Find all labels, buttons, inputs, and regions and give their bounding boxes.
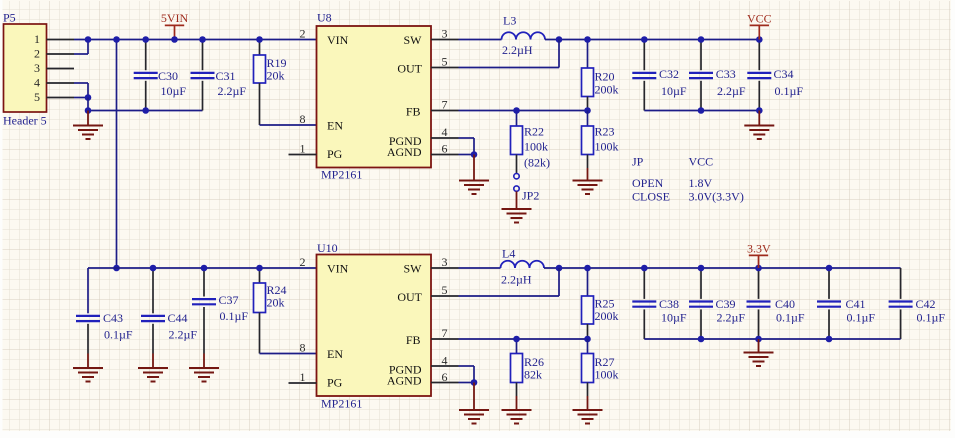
ground below R27 xyxy=(587,396,589,410)
svg-text:C39: C39 xyxy=(716,297,736,311)
wire pin5 down to bottom rail xyxy=(87,98,89,111)
resistor R20 200k xyxy=(587,40,589,69)
svg-text:C30: C30 xyxy=(158,69,178,83)
node pin2-rail junction xyxy=(85,36,92,43)
svg-text:R22: R22 xyxy=(524,125,544,139)
svg-text:PG: PG xyxy=(327,147,343,161)
svg-text:2.2µF: 2.2µF xyxy=(169,328,198,342)
node R19 top xyxy=(256,36,263,43)
svg-text:2: 2 xyxy=(34,47,40,61)
U8 pin 4 PGND wire xyxy=(431,137,459,139)
node R20/FB junction xyxy=(584,107,591,114)
U10 pin 3 SW wire to L4 xyxy=(431,267,459,269)
wire long vertical to lower section xyxy=(116,40,118,269)
node C39 bottom xyxy=(698,336,705,343)
svg-text:8: 8 xyxy=(300,112,306,126)
svg-text:U10: U10 xyxy=(317,241,338,255)
ground below U10 pins xyxy=(473,383,475,411)
node C39 top xyxy=(698,265,705,272)
resistor R25 200k xyxy=(587,268,589,296)
node U10 PGND/AGND junction xyxy=(471,379,478,386)
svg-text:1: 1 xyxy=(34,32,40,46)
U8 pin 6 AGND wire xyxy=(431,154,459,156)
svg-text:0.1µF: 0.1µF xyxy=(220,309,249,323)
wire pin5 to ground net xyxy=(74,97,88,99)
wire lower VIN rail xyxy=(88,267,317,269)
wire header bottom ground rail xyxy=(88,110,203,112)
svg-text:5VIN: 5VIN xyxy=(161,11,189,25)
svg-text:L4: L4 xyxy=(502,247,515,261)
node C41 bottom xyxy=(826,336,833,343)
svg-text:P5: P5 xyxy=(3,11,16,25)
capacitor C41 0.1uF xyxy=(828,268,830,299)
svg-text:C40: C40 xyxy=(775,297,795,311)
U10 pin 1 PG stub xyxy=(289,382,317,384)
svg-text:1: 1 xyxy=(300,370,306,384)
svg-text:C43: C43 xyxy=(103,311,123,325)
op-amp U8 MP2161 regulator xyxy=(317,26,432,168)
svg-text:3: 3 xyxy=(442,27,448,41)
svg-text:VCC: VCC xyxy=(689,155,714,169)
ground below C40 xyxy=(758,339,760,353)
svg-text:C34: C34 xyxy=(774,67,794,81)
svg-text:3.3V: 3.3V xyxy=(747,242,771,256)
svg-text:EN: EN xyxy=(327,119,343,133)
svg-text:OUT: OUT xyxy=(397,290,422,304)
node pin4/pin5 junction xyxy=(85,94,92,101)
svg-text:3: 3 xyxy=(442,255,448,269)
svg-text:VIN: VIN xyxy=(327,262,349,276)
node PGND/AGND junction xyxy=(471,151,478,158)
svg-text:100k: 100k xyxy=(524,140,548,154)
svg-text:4: 4 xyxy=(34,76,40,90)
node L4 output xyxy=(556,265,563,272)
wire caps bottom rail (3.3V filter) xyxy=(644,338,900,340)
ground below R23 xyxy=(587,168,589,181)
node C37 top xyxy=(201,265,208,272)
P5 pin 4 xyxy=(47,82,75,84)
resistor R23 100k xyxy=(587,111,589,127)
svg-text:100k: 100k xyxy=(595,368,619,382)
svg-text:1.8V: 1.8V xyxy=(689,176,713,190)
node C33 top xyxy=(698,36,705,43)
svg-text:100k: 100k xyxy=(595,140,619,154)
node C30 bottom xyxy=(142,107,149,114)
svg-text:C41: C41 xyxy=(846,297,866,311)
svg-text:5: 5 xyxy=(442,283,448,297)
node vertical-top junction xyxy=(113,36,120,43)
svg-text:FB: FB xyxy=(406,333,421,347)
svg-text:7: 7 xyxy=(442,326,448,340)
wire VCC rail xyxy=(545,39,759,41)
svg-text:82k: 82k xyxy=(524,368,542,382)
inductor L3 2.2uH xyxy=(502,32,546,39)
svg-text:MP2161: MP2161 xyxy=(321,397,362,411)
svg-text:EN: EN xyxy=(327,347,343,361)
svg-text:2.2µF: 2.2µF xyxy=(717,311,746,325)
svg-text:C32: C32 xyxy=(659,67,679,81)
svg-text:C31: C31 xyxy=(216,69,236,83)
svg-text:2: 2 xyxy=(300,255,306,269)
U8 pin 1 PG stub xyxy=(289,154,317,156)
wire 3.3V rail xyxy=(544,267,901,269)
svg-text:0.1µF: 0.1µF xyxy=(776,311,805,325)
capacitor C39 2.2uF xyxy=(700,268,702,299)
ground below R26 xyxy=(516,396,518,410)
node ground rail junction xyxy=(85,107,92,114)
node R26/FB junction xyxy=(513,336,520,343)
svg-text:OUT: OUT xyxy=(397,62,422,76)
resistor R22 100k (82k) xyxy=(516,111,518,127)
resistor R24 20k xyxy=(259,268,261,283)
ground below header xyxy=(87,111,89,126)
svg-text:0.1µF: 0.1µF xyxy=(847,311,876,325)
capacitor C32 10uF xyxy=(643,40,645,71)
node R25 top xyxy=(584,265,591,272)
svg-text:(82k): (82k) xyxy=(524,156,550,170)
svg-text:VCC: VCC xyxy=(747,12,772,26)
svg-text:4: 4 xyxy=(442,125,448,139)
wire pin2 up to rail xyxy=(74,53,88,55)
svg-text:2.2µH: 2.2µH xyxy=(501,273,532,287)
capacitor C34 0.1uF xyxy=(758,40,760,71)
inductor L4 2.2uH xyxy=(501,261,545,268)
svg-text:1: 1 xyxy=(300,141,306,155)
svg-text:JP: JP xyxy=(632,155,644,169)
jumper JP2 xyxy=(514,174,519,179)
svg-text:C44: C44 xyxy=(168,311,188,325)
node 5VIN junction xyxy=(171,36,178,43)
U10 pin 6 AGND wire xyxy=(431,382,459,384)
svg-text:C42: C42 xyxy=(916,297,936,311)
node C40 bottom xyxy=(755,336,762,343)
capacitor C40 0.1uF xyxy=(758,268,760,299)
resistor R19 20k xyxy=(259,40,261,56)
ground below C37 xyxy=(203,354,205,369)
capacitor C31 2.2uF xyxy=(202,40,204,71)
svg-text:10µF: 10µF xyxy=(661,311,687,325)
wire caps bottom rail xyxy=(644,110,759,112)
node vertical joins lower rail xyxy=(113,265,120,272)
wire pin4 down xyxy=(74,82,88,84)
P5 pin 5 xyxy=(47,97,75,99)
node R20 top xyxy=(584,36,591,43)
svg-text:0.1µF: 0.1µF xyxy=(104,328,133,342)
capacitor C38 10uF xyxy=(643,268,645,299)
svg-text:2.2µH: 2.2µH xyxy=(502,43,533,57)
svg-text:0.1µF: 0.1µF xyxy=(775,84,804,98)
capacitor C37 0.1uF xyxy=(203,268,205,297)
svg-text:R20: R20 xyxy=(595,70,615,84)
svg-text:OPEN: OPEN xyxy=(632,176,664,190)
svg-text:C33: C33 xyxy=(716,67,736,81)
node C41 top xyxy=(826,265,833,272)
svg-text:C37: C37 xyxy=(219,293,239,307)
svg-text:10µF: 10µF xyxy=(661,84,687,98)
connector P5 (Header 5) xyxy=(4,24,47,112)
svg-text:2: 2 xyxy=(300,27,306,41)
U10 pin 5 OUT wire xyxy=(431,295,459,297)
svg-text:20k: 20k xyxy=(267,69,285,83)
wire 5VIN rail (pin1 to U8 VIN) xyxy=(74,39,317,41)
node C31 top xyxy=(199,36,206,43)
svg-text:20k: 20k xyxy=(267,296,285,310)
svg-text:MP2161: MP2161 xyxy=(321,168,362,182)
svg-text:10µF: 10µF xyxy=(161,84,187,98)
node R22/FB junction xyxy=(513,107,520,114)
svg-text:R23: R23 xyxy=(595,125,615,139)
svg-text:JP2: JP2 xyxy=(522,189,539,203)
svg-text:AGND: AGND xyxy=(387,373,422,387)
svg-text:Header 5: Header 5 xyxy=(3,114,47,128)
svg-text:5: 5 xyxy=(442,55,448,69)
svg-text:FB: FB xyxy=(406,105,421,119)
svg-text:AGND: AGND xyxy=(387,145,422,159)
resistor R27 100k xyxy=(587,339,589,354)
svg-text:VIN: VIN xyxy=(327,33,349,47)
node C44 top xyxy=(150,265,157,272)
node C33 bottom xyxy=(698,107,705,114)
U8 pin 5 OUT wire xyxy=(431,67,459,69)
ground below C34 xyxy=(758,111,760,126)
svg-text:7: 7 xyxy=(442,97,448,111)
capacitor C33 2.2uF xyxy=(700,40,702,71)
U8 pin 3 SW wire to L3 xyxy=(431,39,459,41)
wire R24 to U10 EN xyxy=(260,353,317,355)
svg-text:CLOSE: CLOSE xyxy=(632,190,670,204)
svg-text:2.2µF: 2.2µF xyxy=(717,84,746,98)
ground below C44 xyxy=(152,354,154,369)
svg-text:0.1µF: 0.1µF xyxy=(917,311,946,325)
node C40 top / 3.3V xyxy=(755,265,762,272)
svg-text:5: 5 xyxy=(34,90,40,104)
capacitor C30 10uF xyxy=(145,40,147,71)
node R25/FB junction xyxy=(584,336,591,343)
node C38 top xyxy=(641,265,648,272)
P5 pin 3 (stub) xyxy=(47,68,75,70)
svg-text:3: 3 xyxy=(34,61,40,75)
svg-text:PG: PG xyxy=(327,376,343,390)
svg-text:3.0V(3.3V): 3.0V(3.3V) xyxy=(689,190,744,204)
node C30 top xyxy=(142,36,149,43)
capacitor C43 0.1uF xyxy=(87,268,89,313)
svg-text:6: 6 xyxy=(442,141,448,155)
svg-text:200k: 200k xyxy=(595,309,619,323)
ground below C43 xyxy=(87,354,89,369)
resistor R26 82k xyxy=(516,339,518,354)
capacitor C42 0.1uF xyxy=(900,268,902,299)
P5 pin 1 xyxy=(47,39,75,41)
capacitor C44 2.2uF xyxy=(152,268,154,313)
U10 pin 4 PGND wire xyxy=(431,365,459,367)
svg-text:U8: U8 xyxy=(317,11,332,25)
node C32 top xyxy=(641,36,648,43)
svg-text:2.2µF: 2.2µF xyxy=(218,84,247,98)
node R24 top xyxy=(256,265,263,272)
svg-text:200k: 200k xyxy=(595,83,619,97)
U8 pin 7 FB rail xyxy=(431,110,459,112)
svg-text:L3: L3 xyxy=(503,14,516,28)
svg-text:SW: SW xyxy=(404,262,423,276)
svg-text:SW: SW xyxy=(404,33,423,47)
node C34 top / VCC xyxy=(756,36,763,43)
node L3 output xyxy=(556,36,563,43)
svg-text:8: 8 xyxy=(300,340,306,354)
P5 pin 2 xyxy=(47,53,75,55)
U10 pin 7 FB rail xyxy=(431,338,459,340)
svg-text:C38: C38 xyxy=(659,297,679,311)
op-amp U10 MP2161 regulator xyxy=(317,255,432,397)
ground below U8 pins xyxy=(473,155,475,181)
wire R19 to U8 EN xyxy=(260,124,317,126)
ground below JP2 xyxy=(516,191,518,209)
node C34 bottom xyxy=(756,107,763,114)
